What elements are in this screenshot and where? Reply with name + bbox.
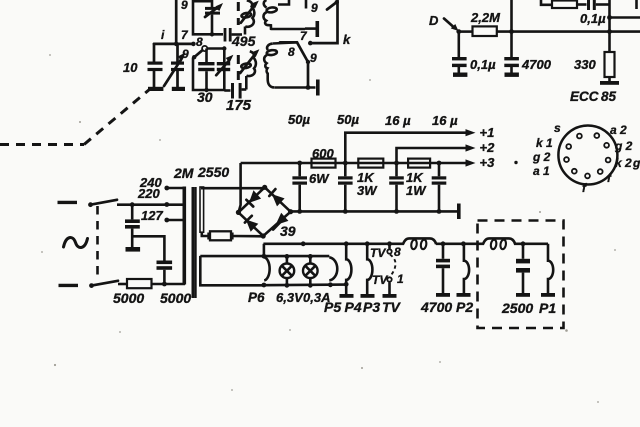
wire: dashed tuning-gang diagonal bbox=[84, 89, 150, 145]
switch: lower pole bbox=[89, 281, 118, 288]
pin g2 left bbox=[564, 157, 569, 162]
svg-text:P2: P2 bbox=[456, 299, 473, 315]
svg-text:16 µ: 16 µ bbox=[432, 113, 458, 128]
node: contact dot end of bus bbox=[191, 42, 196, 47]
svg-text:50µ: 50µ bbox=[288, 112, 310, 127]
capacitor 16u #1 bbox=[389, 163, 404, 214]
svg-text:85: 85 bbox=[601, 89, 617, 104]
capacitor: line filter #2 bbox=[157, 261, 173, 287]
capacitor 2500 with chassis bbox=[516, 241, 530, 296]
svg-text:9: 9 bbox=[181, 0, 188, 12]
wire: stub top right corner bbox=[635, 0, 638, 9]
capacitor: oscillator variable upper bbox=[241, 0, 259, 34]
ground: chassis bar lower bbox=[316, 80, 320, 96]
svg-text:2550: 2550 bbox=[197, 164, 229, 180]
wire: stub at top edge bbox=[278, 0, 289, 5]
resistor 1K 1W bbox=[408, 159, 430, 168]
pin a1 bbox=[572, 169, 577, 174]
wire: upper mains run bbox=[117, 203, 184, 206]
lamp capsule: right scallop bbox=[329, 257, 337, 280]
svg-text:+3: +3 bbox=[480, 155, 496, 170]
SECTION: filter chain bbox=[239, 112, 495, 219]
switch: upper pole bbox=[88, 200, 117, 207]
wire: branch to second cap bbox=[132, 236, 164, 260]
resistor: top right (cut) bbox=[552, 1, 577, 9]
wire: main vertical from top bbox=[175, 0, 178, 44]
wire: stub vertical top bbox=[305, 0, 308, 9]
node: junction dot D bbox=[456, 29, 461, 34]
resistor 330 vertical with chassis bbox=[600, 52, 619, 85]
node: junction after 1K3W bbox=[394, 161, 399, 166]
svg-text:D: D bbox=[429, 13, 439, 28]
wire: capsule bottom rail to P5 bbox=[263, 283, 346, 286]
svg-text:6W: 6W bbox=[309, 171, 330, 186]
wire: vertical from 4700 node to top edge bbox=[510, 0, 513, 32]
coil P1 stub bbox=[541, 244, 555, 297]
inductor: choke inside box bbox=[483, 238, 515, 249]
capacitor 175 series bbox=[224, 83, 251, 114]
wire: from blade down to chassis run bbox=[307, 62, 310, 87]
lamp #2 6.3V 0.3A bbox=[303, 254, 318, 288]
svg-text:8: 8 bbox=[394, 245, 401, 259]
node P4: stub with chassis bbox=[361, 241, 375, 297]
node: dot capsule top junction bbox=[262, 254, 267, 259]
wire: vertical bus at x609 bbox=[608, 0, 611, 52]
wire: bottom run to chassis bbox=[275, 86, 316, 89]
inductor: choke on heater rail bbox=[403, 238, 436, 249]
svg-text:P6: P6 bbox=[248, 290, 265, 305]
resistor 2.2M bbox=[459, 26, 497, 36]
wire: riser to +1 bbox=[345, 133, 467, 163]
svg-text:P5: P5 bbox=[324, 299, 341, 315]
svg-text:TV: TV bbox=[370, 246, 386, 260]
svg-text:5000: 5000 bbox=[160, 290, 191, 306]
node: dot on winding bottom bbox=[262, 283, 267, 288]
capacitor: trimmer in upper box bbox=[205, 0, 223, 37]
svg-text:P3: P3 bbox=[363, 299, 380, 315]
ground: chassis bar end of return rail bbox=[457, 204, 461, 220]
node: dot heater rail x303 bbox=[301, 241, 306, 246]
svg-text:495: 495 bbox=[231, 33, 256, 49]
svg-text:330: 330 bbox=[574, 57, 596, 72]
svg-text:a 1: a 1 bbox=[533, 164, 550, 178]
resistor: surge (bridge series) bbox=[210, 231, 231, 240]
wire: branch to right edge bbox=[610, 16, 640, 19]
capacitor: variable tuning gang section 1 bbox=[164, 44, 186, 91]
capacitor 16u #2 bbox=[432, 161, 447, 214]
svg-text:5000: 5000 bbox=[113, 290, 144, 306]
svg-text:TV: TV bbox=[382, 299, 402, 315]
capacitor 50u #1 bbox=[292, 161, 307, 214]
switch: band switch blade lower bbox=[280, 42, 317, 65]
svg-text:+1: +1 bbox=[480, 125, 495, 140]
svg-text:9: 9 bbox=[310, 51, 317, 65]
transformer: heater winding box bbox=[200, 256, 264, 285]
svg-text:P4: P4 bbox=[345, 299, 362, 315]
switch: cut-off contact at top edge bbox=[311, 0, 339, 15]
svg-text:1W: 1W bbox=[406, 183, 427, 198]
svg-text:39: 39 bbox=[280, 223, 296, 239]
tube ECC85: socket outline bbox=[558, 126, 617, 185]
svg-text:s: s bbox=[554, 121, 561, 135]
capacitor: fixed in lower box bbox=[198, 49, 214, 93]
wire: tick after resistor bbox=[231, 233, 234, 240]
wire: B+ rail bbox=[241, 162, 467, 165]
wire: heater top rail bbox=[263, 243, 404, 246]
wire: main grid line to right edge bbox=[497, 30, 640, 33]
mains: AC symbol bbox=[64, 238, 88, 248]
svg-text:k 1: k 1 bbox=[536, 136, 553, 150]
SECTION: tube socket bbox=[514, 89, 640, 195]
capacitor: line filter #1 with chassis bbox=[125, 202, 140, 251]
svg-text:16 µ: 16 µ bbox=[385, 113, 411, 128]
svg-text:g: g bbox=[632, 156, 640, 170]
svg-text:g 2: g 2 bbox=[532, 150, 551, 164]
arrow +3 bbox=[466, 155, 496, 170]
transformer: tap 220 bbox=[164, 202, 169, 207]
pin f center bbox=[585, 174, 590, 179]
diode: bridge top-right bbox=[269, 189, 284, 206]
svg-text:k: k bbox=[343, 32, 351, 47]
node: junction after 600 bbox=[343, 161, 348, 166]
wire: dashed AGC line horizontal bbox=[0, 143, 84, 146]
SECTION: tuning block top-left bbox=[0, 0, 351, 145]
wire: top right corner entry bbox=[541, 0, 552, 5]
svg-text:1: 1 bbox=[397, 272, 404, 286]
svg-text:k 2: k 2 bbox=[615, 156, 632, 170]
transformer: core lines bbox=[192, 187, 195, 298]
wire: HV top to bridge bbox=[201, 187, 265, 190]
node: junction dot on bus bbox=[174, 42, 179, 47]
capacitor 0.1u detector with chassis bbox=[452, 32, 467, 77]
capacitor 4700 heater with chassis bbox=[436, 241, 450, 296]
pin k2 bbox=[606, 158, 611, 163]
coil: IF box lower (30) bbox=[192, 46, 227, 105]
coil P2 stub bbox=[457, 241, 471, 296]
svg-text:2M: 2M bbox=[173, 165, 194, 181]
svg-text:a 2: a 2 bbox=[610, 123, 627, 137]
wire: riser from bridge plus to rail bbox=[239, 163, 241, 212]
wire: link resistor to cap bbox=[577, 3, 587, 6]
wire: heater rail after choke bbox=[436, 243, 484, 246]
svg-text:g 2: g 2 bbox=[614, 139, 633, 153]
node: junction dot x609 upper bbox=[607, 15, 612, 20]
SECTION: heater rail bbox=[200, 221, 563, 329]
wire: antenna bus y44 bbox=[154, 43, 193, 46]
switch: mechanical dashed link bbox=[96, 206, 99, 281]
svg-text:0,1µ: 0,1µ bbox=[470, 57, 496, 72]
pin k1 bbox=[566, 144, 571, 149]
svg-text:3W: 3W bbox=[357, 183, 378, 198]
pin s bbox=[577, 134, 582, 139]
wire: tick before resistor bbox=[207, 233, 210, 240]
wire: D arrow pointer bbox=[444, 19, 459, 32]
node: stray dot bbox=[514, 161, 517, 164]
mains: lower terminal stub bbox=[59, 284, 79, 287]
svg-text:127: 127 bbox=[141, 208, 163, 223]
svg-text:10: 10 bbox=[123, 60, 138, 75]
svg-text:6,3V: 6,3V bbox=[276, 290, 304, 305]
wire: dashed gang link vertical bbox=[237, 2, 240, 25]
coil L1: IF box upper bbox=[181, 0, 223, 34]
svg-text:4700: 4700 bbox=[521, 57, 552, 72]
capacitor 10: fixed padder bbox=[148, 44, 164, 91]
fuse box in lower run bbox=[127, 279, 152, 288]
svg-text:+2: +2 bbox=[480, 140, 496, 155]
wire: bottom return rail bbox=[291, 210, 457, 213]
SECTION: detector / right top bbox=[429, 0, 640, 85]
capacitor 4700 with chassis bbox=[504, 32, 519, 77]
wire: HV bottom to surge resistor bbox=[202, 232, 209, 236]
svg-text:P1: P1 bbox=[539, 300, 556, 316]
diode: bridge bottom-left bbox=[245, 216, 258, 232]
node: junction dot x609 lower bbox=[607, 29, 612, 34]
paper specks bbox=[41, 54, 616, 403]
SECTION: power supply bbox=[58, 164, 296, 306]
lamp capsule: top edge bbox=[200, 255, 329, 258]
node: dot capsule bottom right bbox=[328, 282, 333, 287]
capacitor 50u #2 bbox=[338, 163, 353, 214]
mains: upper terminal stub bbox=[58, 201, 78, 204]
diode: bridge bottom-right bbox=[273, 213, 288, 230]
rectifier bridge 39: diamond bbox=[236, 185, 293, 239]
wire: link from rail into lamp capsule bbox=[263, 244, 266, 256]
svg-text:4700: 4700 bbox=[420, 299, 452, 315]
wire: lower run to primary bbox=[152, 283, 186, 286]
transformer: tap 127 bbox=[164, 218, 184, 223]
svg-text:2,2M: 2,2M bbox=[470, 10, 501, 25]
coil: oscillator winding upper bbox=[263, 0, 305, 29]
arrow +2 bbox=[466, 140, 496, 155]
diode: bridge top-left bbox=[246, 190, 261, 206]
svg-text:2500: 2500 bbox=[501, 300, 533, 316]
svg-text:220: 220 bbox=[137, 186, 160, 201]
capacitor 495 series bbox=[224, 28, 256, 49]
node k: contact dot and wire up bbox=[308, 0, 351, 47]
transformer: tap 240 bbox=[164, 186, 184, 191]
resistor 600 bbox=[312, 159, 336, 168]
svg-text:0,1µ: 0,1µ bbox=[580, 11, 606, 26]
svg-text:50µ: 50µ bbox=[337, 112, 359, 127]
transformer: HV secondary winding bar bbox=[200, 187, 204, 232]
svg-text:9: 9 bbox=[311, 1, 318, 15]
wire: resistor to bridge bottom bbox=[231, 235, 263, 238]
capacitor 0.1u top right bbox=[580, 0, 610, 26]
resistor 1K 3W bbox=[358, 159, 383, 168]
arrow +1 bbox=[466, 125, 495, 140]
capacitor: oscillator variable lower bbox=[240, 49, 259, 89]
node: junction dot bbox=[306, 85, 311, 90]
coil: oscillator winding lower bbox=[264, 42, 297, 87]
lamp #1 6.3V 0.3A bbox=[280, 254, 295, 288]
pin a2 bbox=[594, 133, 599, 138]
pin g2 right bbox=[604, 143, 609, 148]
svg-text:8: 8 bbox=[288, 45, 295, 59]
capacitor: trimmer in lower box bbox=[216, 55, 233, 75]
wire: riser to +2 bbox=[397, 148, 468, 163]
pin f right bbox=[598, 169, 603, 174]
ground: chassis bar upper bbox=[305, 21, 319, 37]
wire: lower mains run bbox=[118, 283, 127, 286]
dashed box: tone unit bbox=[478, 221, 564, 329]
svg-text:175: 175 bbox=[226, 97, 252, 114]
wire: rail inside box bbox=[514, 243, 548, 246]
lamp capsule: left scallop bbox=[264, 257, 269, 280]
node P3/TV: stub with TV pins bbox=[370, 241, 404, 297]
svg-text:ECC: ECC bbox=[570, 89, 599, 104]
node: junction dot 4700 bbox=[509, 29, 514, 34]
svg-text:TV: TV bbox=[372, 273, 388, 287]
transformer: primary winding bar bbox=[183, 187, 187, 285]
node P5: stub with chassis bbox=[340, 241, 354, 297]
